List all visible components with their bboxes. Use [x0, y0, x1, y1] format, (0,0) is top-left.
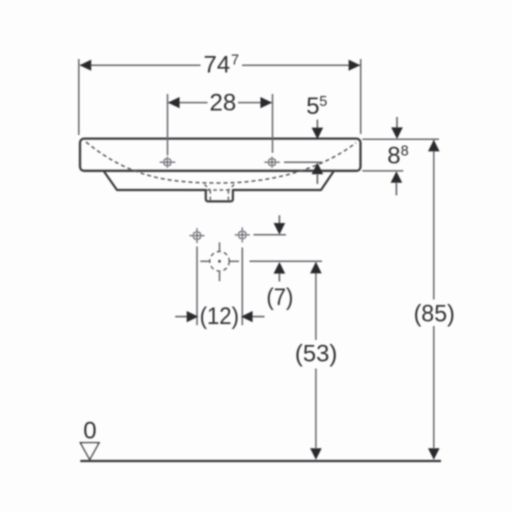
faucet hole symbol left (elevation) [160, 157, 176, 168]
washbasin rim (front elevation outline) [80, 139, 361, 171]
(7) down arrow [278, 215, 280, 223]
svg-text:0: 0 [83, 418, 96, 445]
55 leader up arrow [312, 163, 324, 175]
747 extension line left [78, 59, 80, 135]
(53) dimension line [315, 263, 317, 341]
(53) up arrow [310, 262, 322, 274]
28 extension line right [272, 94, 274, 153]
88 down arrow [396, 117, 398, 128]
svg-text:5: 5 [306, 93, 319, 120]
(12) right arrow [241, 311, 253, 322]
dashed hidden drain lines [205, 185, 235, 201]
svg-text:74: 74 [204, 52, 231, 79]
747 extension line right [360, 59, 362, 134]
svg-text:7: 7 [231, 53, 239, 69]
washbasin lower body with drain boss [104, 171, 335, 202]
(85) down arrow [428, 448, 440, 460]
88 bottom reference line [362, 170, 403, 172]
svg-text:(12): (12) [200, 303, 239, 330]
28 extension line left [167, 94, 169, 155]
svg-text:8: 8 [387, 142, 400, 169]
(12) extension line right [241, 248, 243, 326]
(7) up arrow [274, 262, 286, 274]
floor baseline [80, 460, 441, 462]
(12) extension line left [196, 247, 198, 326]
88 up arrow [391, 171, 403, 183]
(12) left arrow [175, 316, 187, 318]
747 dimension line [80, 64, 201, 66]
svg-text:28: 28 [210, 89, 237, 116]
(7) top level line [254, 234, 287, 236]
svg-text:(53): (53) [295, 340, 337, 367]
dashed basin bowl profile [86, 142, 356, 183]
faucet hole symbol right (elevation) [264, 157, 280, 168]
(7) bottom level line [250, 260, 323, 262]
svg-text:8: 8 [401, 143, 409, 159]
svg-text:(7): (7) [266, 284, 293, 311]
28 dimension line [168, 102, 207, 104]
drain symbol centre dot [218, 260, 221, 263]
faucet hole symbol right (plan view) [235, 227, 250, 242]
datum triangle [80, 443, 99, 460]
drain symbol (plan view) dashed circle [210, 251, 230, 271]
55 leader down arrow [316, 120, 318, 129]
(53) down arrow [310, 448, 322, 460]
88 top reference line [362, 138, 439, 140]
svg-text:(85): (85) [414, 301, 455, 328]
(85) dimension line [433, 140, 435, 299]
svg-text:5: 5 [319, 94, 327, 110]
faucet level line [284, 161, 322, 163]
drain symbol crosshair arms [200, 242, 239, 281]
(85) up arrow [428, 140, 440, 152]
faucet hole symbol left (plan view) [190, 228, 205, 243]
